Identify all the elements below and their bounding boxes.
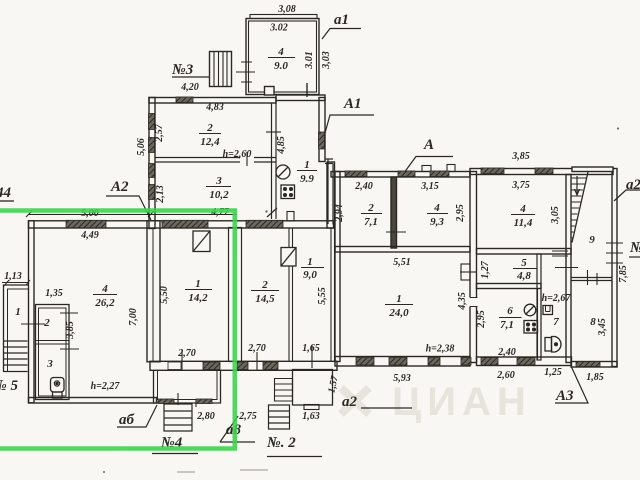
partition 7.1-9.3 (391, 177, 397, 248)
left block left wall (29, 221, 35, 403)
svg-text:7,1: 7,1 (500, 319, 514, 331)
wall A/right section (470, 172, 477, 363)
stair parapet top right (572, 167, 613, 172)
svg-text:2,13: 2,13 (155, 185, 166, 204)
win top wall 26.2 (66, 220, 106, 228)
stove room 6 (524, 321, 538, 334)
svg-text:2: 2 (367, 202, 374, 214)
svg-text:9,3: 9,3 (430, 216, 444, 228)
win right top wall 2 (535, 168, 553, 174)
svg-text:5,50: 5,50 (159, 286, 170, 304)
svg-text:3,15: 3,15 (420, 181, 439, 192)
door gap wall 470 (469, 298, 478, 307)
win top wall 14.2 (162, 220, 208, 228)
svg-text:2,57: 2,57 (154, 123, 165, 143)
duct stub above wall (287, 212, 294, 222)
stair wedge top right: hypotenuse (572, 172, 588, 243)
door tick room2 right (60, 312, 78, 314)
section A left wall (335, 172, 340, 362)
faint smudges (177, 470, 268, 472)
svg-text:7,85: 7,85 (618, 265, 629, 283)
partition rooms 2-3 A1 (155, 158, 276, 163)
section A top wall (331, 172, 470, 178)
room 8 bottom wall (571, 362, 617, 368)
right wall 1/9.9 upper (319, 98, 325, 162)
svg-text:3,75: 3,75 (511, 180, 530, 191)
svg-text:a2: a2 (342, 394, 358, 410)
tambour inner stairs box (275, 379, 293, 402)
svg-text:44: 44 (0, 185, 12, 201)
svg-text:9,0: 9,0 (303, 269, 317, 281)
main band top wall (29, 221, 334, 228)
parapet above top room (250, 15, 317, 19)
win 1/9.9 right wall (319, 132, 325, 149)
svg-text:A2: A2 (110, 179, 129, 195)
win top wall 14.5 (246, 220, 283, 228)
wall top of room 1/9.9 (276, 95, 325, 101)
svg-text:ЦИАН: ЦИАН (392, 380, 532, 424)
door jamb tick top room (306, 83, 308, 97)
svg-text:3.01: 3.01 (304, 51, 315, 70)
circle-slash room 1/9.9 (276, 165, 290, 179)
svg-text:4,8: 4,8 (516, 270, 531, 282)
svg-text:1,35: 1,35 (45, 288, 63, 299)
water heater room 7 (543, 306, 553, 315)
svg-text:1: 1 (15, 306, 21, 318)
svg-text:№. 2: №. 2 (266, 435, 296, 451)
win bottom room 8 (576, 362, 600, 367)
section A1 left wall (149, 98, 155, 229)
win bottom 14.2 (168, 362, 181, 370)
svg-text:1,25: 1,25 (544, 367, 562, 378)
tick 2,70 left (256, 352, 258, 370)
svg-text:1,27: 1,27 (480, 260, 491, 279)
top building room 4/9.0 outline (246, 19, 319, 95)
green top line (0, 208, 237, 213)
svg-text:7,00: 7,00 (128, 308, 139, 326)
watermark (341, 388, 369, 414)
wall under rooms 2,4 (top of 24.0) (335, 247, 470, 253)
svg-text:2,75: 2,75 (238, 411, 257, 422)
svg-text:7,1: 7,1 (364, 216, 378, 228)
partition 6/7 (538, 289, 542, 360)
stairs N3 box (210, 52, 232, 87)
porch N5 dim line 1,13 (2, 280, 30, 286)
duct wall right of 14.5 (289, 228, 293, 361)
svg-text:14,2: 14,2 (188, 292, 208, 304)
svg-text:11,4: 11,4 (514, 217, 533, 229)
svg-text:3: 3 (46, 358, 53, 370)
svg-text:№ 5: № 5 (0, 378, 18, 394)
svg-text:2,80: 2,80 (196, 411, 215, 422)
svg-text:4,49: 4,49 (80, 230, 99, 241)
circle-slash room 6 (524, 304, 536, 316)
opening ticks 9/8 wall (588, 270, 598, 285)
svg-text:10,2: 10,2 (209, 189, 229, 201)
svg-text:9: 9 (589, 234, 595, 246)
stairs N5 steps (4, 341, 28, 372)
svg-text:4,83: 4,83 (205, 102, 224, 113)
wall right of rooms column (566, 175, 571, 363)
green bottom line (0, 446, 237, 451)
svg-text:3,08: 3,08 (277, 4, 296, 15)
porch N4 outline (154, 370, 221, 403)
svg-text:1,65: 1,65 (302, 343, 320, 354)
corridor right wall (331, 228, 335, 361)
svg-text:6: 6 (507, 305, 513, 317)
stair wedge hatch (571, 178, 587, 238)
duct square room 14.2 (193, 231, 210, 252)
section A bottom wall (335, 357, 470, 367)
leader a1 (322, 29, 361, 40)
svg-text:2,40: 2,40 (354, 181, 373, 192)
svg-text:8: 8 (590, 316, 596, 328)
green right line (233, 209, 238, 449)
svg-text:4: 4 (101, 283, 108, 295)
svg-text:4,85: 4,85 (276, 136, 287, 155)
inner rooms 2-3 box left (36, 305, 70, 400)
svg-text:3,05: 3,05 (550, 206, 561, 225)
svg-text:3: 3 (215, 175, 222, 187)
scan speckles (103, 127, 619, 473)
svg-text:26,2: 26,2 (94, 297, 115, 309)
svg-text:3,85: 3,85 (65, 321, 76, 340)
stair wedge arrow (575, 176, 580, 195)
window hatches (66, 97, 600, 404)
svg-text:3.02: 3.02 (269, 23, 288, 34)
partition rooms 2-3 left (36, 341, 70, 345)
tambour a2 outline (293, 370, 333, 406)
svg-text:№: № (629, 240, 640, 256)
door ticks into left wall of 4/9.0 (236, 62, 255, 82)
duct on wall 24.0 (461, 264, 470, 280)
step wall 1/9.9 (325, 159, 333, 225)
svg-text:5,55: 5,55 (317, 287, 328, 305)
svg-text:2,94: 2,94 (334, 204, 345, 223)
wall under room 5 (477, 284, 542, 289)
svg-text:9.0: 9.0 (274, 60, 288, 72)
svg-text:3,85: 3,85 (511, 151, 530, 162)
wall under 11.4 (477, 249, 572, 255)
svg-text:2,70: 2,70 (247, 343, 266, 354)
win bottom 14.5 (237, 362, 248, 370)
svg-text:2,60: 2,60 (496, 370, 515, 381)
right section bottom wall (477, 357, 572, 366)
section A1 top wall (149, 98, 276, 104)
stove room 1/9.9 (281, 185, 295, 199)
svg-text:5,51: 5,51 (393, 257, 411, 268)
leader A (405, 157, 453, 172)
win porch N4 bottom (158, 399, 174, 404)
win A top wall 3 (430, 171, 449, 177)
door tick partition (386, 231, 406, 233)
svg-text:1: 1 (396, 293, 402, 305)
svg-text:1,63: 1,63 (302, 411, 320, 422)
right section top wall (470, 169, 613, 175)
door tick veranda (181, 350, 183, 371)
svg-text:24,0: 24,0 (388, 307, 409, 319)
svg-text:14,5: 14,5 (255, 293, 275, 305)
svg-text:12,4: 12,4 (200, 136, 220, 148)
steps N4 (164, 404, 192, 431)
tick tambour top (311, 345, 313, 368)
svg-text:a1: a1 (334, 12, 349, 28)
svg-text:h=2,60: h=2,60 (223, 149, 252, 160)
svg-text:A1: A1 (343, 96, 362, 112)
svg-text:2: 2 (43, 317, 50, 329)
svg-text:9.9: 9.9 (300, 173, 314, 185)
svg-text:1: 1 (195, 278, 201, 290)
svg-text:h=2,67: h=2,67 (542, 293, 572, 304)
win bottom A 1 (356, 358, 374, 366)
wall between 26.2 and 14.2 (147, 221, 160, 362)
svg-text:4: 4 (519, 203, 526, 215)
win bottom right 1 (481, 358, 498, 366)
win A top wall 1 (345, 171, 367, 177)
steps N2 outside (269, 405, 290, 429)
svg-text:1,13: 1,13 (4, 271, 22, 282)
svg-text:h=2,38: h=2,38 (426, 344, 455, 355)
right outer wall (612, 169, 617, 367)
svg-text:аб: аб (119, 412, 135, 428)
wall between 14.2 and 14.5 (under green) (229, 228, 242, 362)
green rectangle overlay (0, 209, 237, 449)
tick above steps N4 (178, 393, 196, 407)
wall rooms 9/8 (571, 278, 612, 281)
wall between A1 rooms and 1/9.9 (272, 100, 277, 219)
chimney stubs above A wall (422, 166, 431, 172)
dim tick at A1 wall (267, 208, 277, 217)
svg-text:1: 1 (307, 256, 313, 268)
svg-text:2: 2 (261, 279, 268, 291)
svg-text:4: 4 (277, 46, 284, 58)
door tick room9 left wall (555, 267, 578, 269)
svg-text:4,20: 4,20 (180, 82, 199, 93)
svg-text:№3: №3 (171, 62, 194, 78)
stairs N3 steps (214, 52, 227, 87)
svg-text:7: 7 (553, 316, 559, 328)
leader A1 (325, 115, 374, 133)
tambour door step (304, 405, 319, 410)
mid band bottom wall (150, 361, 337, 370)
svg-text:5,93: 5,93 (393, 373, 411, 384)
door tick wall to 9.9 (266, 131, 281, 133)
svg-text:1,85: 1,85 (586, 372, 604, 383)
door on bottom wall of 4/9.0 (265, 87, 275, 96)
left block bottom wall (29, 398, 157, 404)
door tick wall 470 (460, 271, 476, 273)
svg-text:5,06: 5,06 (136, 138, 147, 156)
dim line 5,00/4,77 under green (26, 211, 237, 217)
svg-text:2: 2 (206, 122, 213, 134)
wall notch A1 to A (327, 162, 335, 228)
svg-text:4: 4 (433, 202, 440, 214)
win right top wall 1 (481, 168, 504, 174)
svg-text:1: 1 (304, 159, 310, 171)
win A1 top wall (176, 97, 193, 103)
door tick porch to room1 (21, 323, 45, 325)
svg-text:h=2,27: h=2,27 (91, 381, 121, 392)
door ticks right outer wall (606, 243, 623, 263)
door tick rooms 2-3 (246, 152, 248, 166)
partition 5/6 right wall (537, 254, 541, 360)
leader A2 (106, 196, 151, 220)
toilet room 3 left (51, 378, 65, 393)
svg-text:3,45: 3,45 (597, 318, 608, 337)
svg-text:2,95: 2,95 (476, 310, 487, 329)
svg-text:4,35: 4,35 (457, 292, 468, 311)
leader N3 (172, 76, 210, 78)
duct square corridor (281, 248, 296, 267)
svg-text:A: A (423, 137, 434, 153)
svg-text:3,03: 3,03 (321, 51, 332, 70)
leader a2 top (614, 190, 640, 201)
door tick room3 right (60, 348, 79, 350)
porch N5 outline (4, 285, 29, 372)
svg-text:2,40: 2,40 (497, 347, 516, 358)
win A top wall 2 (398, 171, 415, 177)
svg-text:2,95: 2,95 (455, 204, 466, 223)
toilet room 7 (545, 338, 552, 352)
svg-text:5: 5 (521, 257, 527, 269)
svg-text:2,70: 2,70 (177, 348, 196, 359)
win A1 left wall (149, 114, 155, 130)
svg-text:A3: A3 (555, 388, 574, 404)
door ticks corridor 5-9 (552, 251, 568, 256)
